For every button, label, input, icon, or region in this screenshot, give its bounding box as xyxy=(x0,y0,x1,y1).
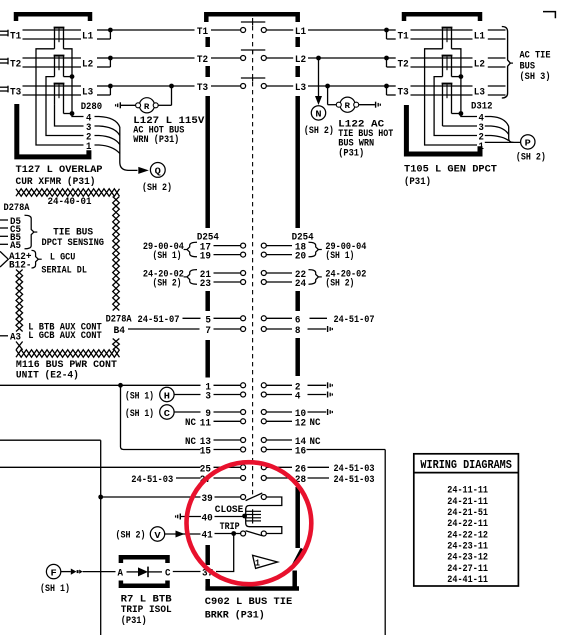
svg-text:24-22-11: 24-22-11 xyxy=(447,518,488,530)
red highlight ellipse xyxy=(187,462,312,584)
wire row 1 from left edge xyxy=(0,383,201,388)
svg-text:L1: L1 xyxy=(295,26,306,38)
node T1 input (T105) xyxy=(384,28,396,39)
svg-text:(P31): (P31) xyxy=(121,615,147,627)
svg-text:T127 L OVERLAP: T127 L OVERLAP xyxy=(16,164,103,176)
wiring diagram ref 24-11-11 xyxy=(447,485,488,497)
svg-text:(SH 2): (SH 2) xyxy=(304,125,334,137)
svg-text:D278A: D278A xyxy=(4,202,31,214)
CT secondary lead T105 phase1 left xyxy=(425,49,477,145)
svg-text:L GCU: L GCU xyxy=(50,252,76,264)
CLOSE contact wire loop xyxy=(246,497,282,509)
AC tie bus stub L2 xyxy=(488,58,506,67)
wire pin 6 to 24-51-07 xyxy=(310,317,328,319)
svg-text:CUR XFMR (P31): CUR XFMR (P31) xyxy=(16,176,96,188)
svg-text:R: R xyxy=(144,102,150,112)
connector label D254 left xyxy=(197,232,219,244)
svg-text:L1: L1 xyxy=(474,31,485,43)
sheet reference C xyxy=(160,405,174,419)
wire T3 pair into CT (T105) xyxy=(411,86,473,95)
svg-text:3: 3 xyxy=(205,391,211,403)
svg-text:C: C xyxy=(164,408,171,419)
terminal pin 3 (D312) xyxy=(479,122,484,134)
breaker box C902 right border xyxy=(295,37,300,548)
branch to N xyxy=(315,58,322,105)
aux contact pins 23/24 xyxy=(200,278,306,290)
svg-text:AC TIE: AC TIE xyxy=(520,49,551,61)
junction T105 common phase2 xyxy=(452,74,464,79)
wire V to pin 41 xyxy=(165,531,201,538)
component label C902 xyxy=(205,596,292,622)
transformer box T127 outline bottom-left xyxy=(17,104,89,157)
current transformer T127 phase 3 xyxy=(54,84,65,114)
shield ground at L122 xyxy=(376,102,381,108)
wire row 25 from left edge xyxy=(0,466,201,468)
wire T3 pair into CT xyxy=(23,86,82,95)
sheet continuation stub T2 left edge xyxy=(0,58,8,65)
svg-text:24-51-07: 24-51-07 xyxy=(334,314,375,326)
label (SH 2) under P xyxy=(516,151,546,163)
terminal B5 xyxy=(0,232,21,244)
wire row 39 from left edge xyxy=(0,440,103,635)
label L122 xyxy=(338,118,393,159)
svg-text:4: 4 xyxy=(295,391,301,403)
svg-text:24-27-11: 24-27-11 xyxy=(447,563,488,575)
terminal pin 2 (D280) xyxy=(86,131,91,143)
wire T2 pair into CT (T105) xyxy=(411,58,473,67)
svg-text:24-22-12: 24-22-12 xyxy=(447,529,488,541)
diode box R7 outline xyxy=(121,557,168,586)
CT secondary lead phase2 left to terminal 2 xyxy=(46,77,84,136)
connector label D280 xyxy=(81,101,103,113)
component label M116 xyxy=(16,359,117,382)
wire R7 C to pin 37 xyxy=(173,571,201,573)
svg-text:(SH 2): (SH 2) xyxy=(142,182,172,194)
control unit box M116 hatched border xyxy=(16,189,120,357)
wire F to R7 A xyxy=(61,569,116,575)
svg-text:L2: L2 xyxy=(474,59,485,71)
svg-text:L3: L3 xyxy=(295,82,306,94)
svg-text:16: 16 xyxy=(295,446,306,458)
pin 39 xyxy=(202,493,213,505)
CT secondary lead T105 phase2 left xyxy=(434,77,477,136)
svg-text:7: 7 xyxy=(205,325,211,337)
wire to pin 39 xyxy=(103,496,201,498)
node T2 input (T105) xyxy=(384,56,396,67)
wire C902 L1 to T105 T1 xyxy=(308,29,387,31)
label 24-51-03 pin 28 xyxy=(334,474,375,486)
svg-text:N: N xyxy=(315,109,322,120)
CT secondary lead phase3 left to terminal 3 xyxy=(55,104,84,126)
label 24-20-02 (SH 2) left xyxy=(143,269,184,290)
wire pin 41 branch to pin 37 xyxy=(216,534,234,572)
label (SH 1) under F xyxy=(40,583,70,595)
device flag 1 (triangle) xyxy=(253,555,278,568)
svg-text:(P31): (P31) xyxy=(404,176,431,188)
wiring diagram ref 24-21-11 xyxy=(447,496,488,508)
svg-text:1: 1 xyxy=(255,558,260,569)
wire pin 40 to coil xyxy=(215,516,243,518)
wire pin 2 shield xyxy=(308,384,327,386)
label (SH 1) row 9 xyxy=(125,408,154,420)
wire to pin 40 xyxy=(180,516,201,518)
label 29-00-04 (SH 1) left xyxy=(143,241,184,262)
svg-text:(SH 2): (SH 2) xyxy=(116,529,146,541)
TRIP contact xyxy=(215,531,267,536)
terminal label T1 (T105) xyxy=(398,31,409,43)
wire C902 L3 to T105 T3 xyxy=(308,84,387,89)
wire C to pin 9 xyxy=(174,411,201,413)
label 24-51-03 pin 26 xyxy=(334,463,375,475)
terminal B4 xyxy=(114,325,126,337)
svg-text:(SH 2): (SH 2) xyxy=(325,278,354,290)
aux contact pins 19/20 xyxy=(200,251,306,263)
terminal A3 xyxy=(0,332,21,344)
svg-text:D278A: D278A xyxy=(106,314,133,326)
label L GCU SERIAL DL xyxy=(41,252,87,277)
wire T1 pair into CT xyxy=(23,30,82,39)
aux contact pins 17/18 xyxy=(200,242,306,254)
label (SH 2) under Q xyxy=(142,182,172,194)
terminal label T3 (T127) xyxy=(10,87,21,99)
wire C902 L2 to T105 T2 xyxy=(308,56,387,61)
wire pin 28 label xyxy=(308,477,330,479)
wire pin 4 shield xyxy=(308,394,327,396)
svg-text:(SH 1): (SH 1) xyxy=(40,583,70,595)
current transformer T127 phase 1 xyxy=(54,28,65,49)
pin 41 xyxy=(202,529,213,541)
component label T105 xyxy=(404,164,497,189)
svg-text:T1: T1 xyxy=(10,31,21,43)
shield ground at L127 xyxy=(116,102,121,108)
svg-text:T2: T2 xyxy=(10,59,21,71)
wire pin 8 shield xyxy=(308,328,327,330)
svg-text:CLOSE: CLOSE xyxy=(215,504,244,516)
svg-text:15: 15 xyxy=(200,446,211,458)
brace pins 22/24 xyxy=(309,270,322,285)
node L2 output (T127) xyxy=(97,56,113,67)
wiring diagram ref 24-22-11 xyxy=(447,518,488,530)
svg-text:23: 23 xyxy=(200,278,211,290)
sheet reference Q xyxy=(150,163,165,178)
svg-text:WIRING DIAGRAMS: WIRING DIAGRAMS xyxy=(420,458,512,472)
sheet continuation stub T1 left edge xyxy=(0,30,8,37)
label NC pin 14 xyxy=(310,436,322,448)
node L1 output (T127) xyxy=(97,28,113,39)
svg-text:B12-: B12- xyxy=(9,259,32,271)
label NC pin 13 xyxy=(185,436,197,448)
wire L2 to C902 T2 xyxy=(113,57,195,59)
diode R7 xyxy=(127,567,163,578)
svg-text:(SH 3): (SH 3) xyxy=(520,71,551,83)
close/trip coil xyxy=(242,509,261,524)
svg-text:20: 20 xyxy=(295,251,306,263)
svg-text:TRIP: TRIP xyxy=(220,521,240,533)
wire pin 15 branch xyxy=(121,385,201,449)
label TIE BUS DPCT SENSING xyxy=(42,226,105,249)
wire H to pin 3 xyxy=(174,394,201,396)
generator box T105 outline bottom xyxy=(406,105,480,154)
aux contact pins 21/22 xyxy=(200,269,306,281)
shield ground pin 40 xyxy=(176,514,181,520)
terminal label L3 (T105) xyxy=(474,87,485,99)
svg-text:B4: B4 xyxy=(114,325,126,337)
generator box T105 outline top xyxy=(404,14,480,21)
svg-text:(SH 1): (SH 1) xyxy=(125,390,154,402)
terminal label L1 (T127) xyxy=(82,31,93,43)
CT secondary lead T105 phase3 left xyxy=(443,125,478,127)
svg-text:BRKR (P31): BRKR (P31) xyxy=(205,609,265,621)
label 24-51-07 left xyxy=(138,314,201,326)
svg-text:UNIT (E2-4): UNIT (E2-4) xyxy=(16,370,79,382)
terminal pin 1 (D312) xyxy=(479,141,484,153)
label 24-20-02 (SH 2) right xyxy=(325,269,366,290)
arrow to Q xyxy=(138,167,149,174)
aux contact pins 3/4 xyxy=(205,391,300,403)
svg-text:A: A xyxy=(118,568,124,580)
CT secondary lead phase1 left to terminal 1 xyxy=(36,49,84,145)
aux contact pins 25/26 xyxy=(200,463,306,475)
transformer box T127 outline top xyxy=(16,14,90,21)
svg-text:12: 12 xyxy=(295,417,306,429)
terminal label T2 (T127) xyxy=(10,59,21,71)
AC tie bus brace xyxy=(502,27,513,99)
svg-text:24-51-03: 24-51-03 xyxy=(334,474,375,486)
svg-text:H: H xyxy=(164,390,171,401)
svg-text:24-23-11: 24-23-11 xyxy=(447,541,488,553)
svg-text:(SH 2): (SH 2) xyxy=(516,151,546,163)
wire L3 to C902 T3 xyxy=(113,84,195,89)
svg-text:C902 L BUS TIE: C902 L BUS TIE xyxy=(205,596,292,608)
label L BTB AUX CONT xyxy=(28,322,102,334)
label L GCB AUX CONT xyxy=(28,330,102,342)
shield ground pin 2 xyxy=(328,382,333,388)
label (SH 2) under N xyxy=(304,125,334,137)
CT common secondary lead to terminal 4 xyxy=(64,49,84,117)
svg-text:(SH 1): (SH 1) xyxy=(125,408,154,420)
aux contact pins 15/16 xyxy=(200,446,306,458)
svg-text:L3: L3 xyxy=(82,87,93,99)
terminal label L2 (T127) xyxy=(82,59,93,71)
svg-text:24-11-11: 24-11-11 xyxy=(447,485,488,497)
svg-text:L2: L2 xyxy=(82,59,93,71)
label NC pin 11 xyxy=(185,417,197,429)
wire pin 10 shield xyxy=(308,411,327,413)
sheet reference F xyxy=(46,564,60,578)
current transformer T105 phase 2 xyxy=(442,56,453,77)
svg-text:11: 11 xyxy=(200,417,211,429)
brace terminals D5-A5 xyxy=(25,215,38,249)
aux contact pins 5/6 xyxy=(205,314,300,326)
node L3 output (T127) xyxy=(97,84,113,95)
label (SH 1) row 3 xyxy=(125,390,154,402)
sheet continuation stub T3 left edge xyxy=(0,86,8,93)
label 24-51-03 pin 27 xyxy=(131,474,200,486)
breaker box C902 bottom xyxy=(205,549,302,589)
connector label D254 right xyxy=(292,232,314,244)
current transformer T127 phase 2 xyxy=(54,56,65,77)
brace pins 17/19 xyxy=(184,242,197,257)
svg-text:L3: L3 xyxy=(474,87,485,99)
label CLOSE xyxy=(215,504,244,516)
terminal pin 4 (D280) xyxy=(86,112,91,124)
cable bundle D280 to Q xyxy=(95,117,138,171)
svg-text:T1: T1 xyxy=(398,31,409,43)
AC tie bus stub L3 xyxy=(488,86,506,95)
svg-text:R: R xyxy=(345,101,351,111)
terminal A12+ xyxy=(9,251,32,263)
terminal label T3 (T105) xyxy=(398,87,409,99)
wiring diagram ref 24-23-11 xyxy=(447,541,488,553)
shield ground pin 10 xyxy=(328,409,333,415)
svg-text:T1: T1 xyxy=(197,26,208,38)
terminal A xyxy=(118,568,124,580)
brace pins 21/23 xyxy=(184,270,197,285)
svg-text:24-51-07: 24-51-07 xyxy=(138,314,180,326)
svg-text:WRN (P31): WRN (P31) xyxy=(133,134,179,146)
sheet reference H xyxy=(160,387,174,401)
wire pin 16 off-page xyxy=(307,450,386,635)
terminal D5 xyxy=(0,216,21,228)
wiring diagram ref 24-27-11 xyxy=(447,563,488,575)
svg-text:8: 8 xyxy=(295,325,301,337)
svg-text:NC: NC xyxy=(310,436,322,448)
terminal label T1 (T127) xyxy=(10,31,21,43)
svg-text:(SH 1): (SH 1) xyxy=(325,250,354,262)
lamp L127 branch wire xyxy=(120,86,171,105)
svg-text:24-41-11: 24-41-11 xyxy=(447,574,488,586)
pin 40 xyxy=(202,512,213,524)
svg-text:T105 L GEN DPCT: T105 L GEN DPCT xyxy=(404,164,497,176)
wire L1 to C902 T1 xyxy=(113,29,195,31)
svg-text:40: 40 xyxy=(202,512,213,524)
svg-text:24-21-51: 24-21-51 xyxy=(447,507,488,519)
terminal label L1 (T105) xyxy=(474,31,485,43)
terminal label L2 (T105) xyxy=(474,59,485,71)
svg-text:DPCT SENSING: DPCT SENSING xyxy=(42,237,105,249)
svg-text:(SH 1): (SH 1) xyxy=(153,250,182,262)
svg-text:L2: L2 xyxy=(295,54,306,66)
terminal A5 xyxy=(0,240,21,252)
wiring diagram ref 24-23-12 xyxy=(447,552,488,564)
node T3 input (T105) xyxy=(384,84,396,95)
label (SH 2) row 41 xyxy=(116,529,146,541)
wiring diagram ref 24-22-12 xyxy=(447,529,488,541)
svg-text:1: 1 xyxy=(86,141,91,153)
warning lamp L122 xyxy=(336,97,358,112)
svg-text:NC: NC xyxy=(185,436,197,448)
breaker mechanism linkage (dashed) xyxy=(252,18,254,497)
aux contact pins 11/12 xyxy=(200,417,306,429)
current transformer T105 phase 1 xyxy=(442,28,453,49)
wire T2 pair into CT xyxy=(23,58,82,67)
svg-text:NC: NC xyxy=(310,417,322,429)
wire T1 pair into CT (T105) xyxy=(411,30,473,39)
wiring diagrams table xyxy=(414,454,519,586)
svg-text:T2: T2 xyxy=(398,59,409,71)
svg-text:(P31): (P31) xyxy=(338,148,364,160)
label 24-40-01 xyxy=(48,196,92,208)
TRIP contact wire loop xyxy=(246,523,282,534)
CLOSE contact xyxy=(215,493,267,501)
aux contact pins 9/10 xyxy=(205,408,306,420)
junction T105 common phase3 xyxy=(452,111,464,116)
svg-text:1: 1 xyxy=(479,141,484,153)
wiring diagram ref 24-21-51 xyxy=(447,507,488,519)
aux contact pins 27/28 xyxy=(200,474,306,486)
svg-text:C: C xyxy=(165,568,171,580)
terminal label T2 (T105) xyxy=(398,59,409,71)
connector label D278A upper xyxy=(4,202,31,214)
breaker box C902 left border xyxy=(205,37,210,565)
shield ground pin 4 xyxy=(328,392,333,398)
breaker pole T2 contact xyxy=(197,50,306,66)
svg-text:39: 39 xyxy=(202,493,213,505)
label NC pin 12 xyxy=(310,417,322,429)
junction common lead phase3 xyxy=(64,111,75,116)
svg-text:T3: T3 xyxy=(197,82,208,94)
terminal pin 3 (D280) xyxy=(86,122,91,134)
terminal C5 xyxy=(0,224,21,236)
wire pin 26 label xyxy=(308,466,330,468)
terminal label L3 (T127) xyxy=(82,87,93,99)
breaker pole T1 contact xyxy=(197,22,306,38)
terminal C xyxy=(165,568,171,580)
svg-text:24-51-03: 24-51-03 xyxy=(131,474,173,486)
breaker pole T3 contact xyxy=(197,78,306,94)
svg-text:L1: L1 xyxy=(82,31,93,43)
aux contact pins 13/14 xyxy=(200,436,306,448)
brace terminals A12/B12 xyxy=(32,250,42,268)
svg-text:(SH 2): (SH 2) xyxy=(153,278,182,290)
svg-text:19: 19 xyxy=(200,251,211,263)
sheet reference P xyxy=(521,135,535,149)
warning lamp L127 xyxy=(136,98,159,113)
wiring diagram ref 24-41-11 xyxy=(447,574,488,586)
label TRIP xyxy=(220,521,240,533)
svg-text:P: P xyxy=(525,138,532,149)
label 29-00-04 (SH 1) right xyxy=(325,241,366,262)
breaker box C902 top xyxy=(206,14,297,22)
pin 37 xyxy=(202,567,213,579)
svg-text:NC: NC xyxy=(185,417,197,429)
svg-text:D280: D280 xyxy=(81,101,103,113)
svg-text:41: 41 xyxy=(202,529,213,541)
svg-text:D312: D312 xyxy=(471,101,493,113)
svg-text:T3: T3 xyxy=(10,87,21,99)
aux contact pins 1/2 xyxy=(205,381,300,393)
sheet reference N xyxy=(311,106,325,120)
junction common lead phase2 xyxy=(64,74,75,79)
shield ground pin 8 xyxy=(328,326,333,332)
label 24-51-07 right xyxy=(334,314,375,326)
svg-text:T2: T2 xyxy=(197,54,208,66)
current transformer T105 phase 3 xyxy=(442,84,453,126)
svg-text:SERIAL DL: SERIAL DL xyxy=(41,264,87,276)
terminal pin 1 (D280) xyxy=(86,141,91,153)
label L127 xyxy=(133,115,205,146)
twisted pair chevron A12/B12 xyxy=(0,251,8,267)
aux contact pins 7/8 xyxy=(205,325,300,337)
svg-text:Q: Q xyxy=(155,166,162,177)
svg-text:V: V xyxy=(154,530,161,541)
component label R7 xyxy=(121,594,173,627)
svg-text:A3: A3 xyxy=(10,332,21,344)
connector label D278A lower xyxy=(106,314,133,326)
wire B4 to pin 7 xyxy=(128,328,200,330)
svg-text:T3: T3 xyxy=(398,87,409,99)
label AC TIE BUS (SH 3) xyxy=(520,49,551,83)
